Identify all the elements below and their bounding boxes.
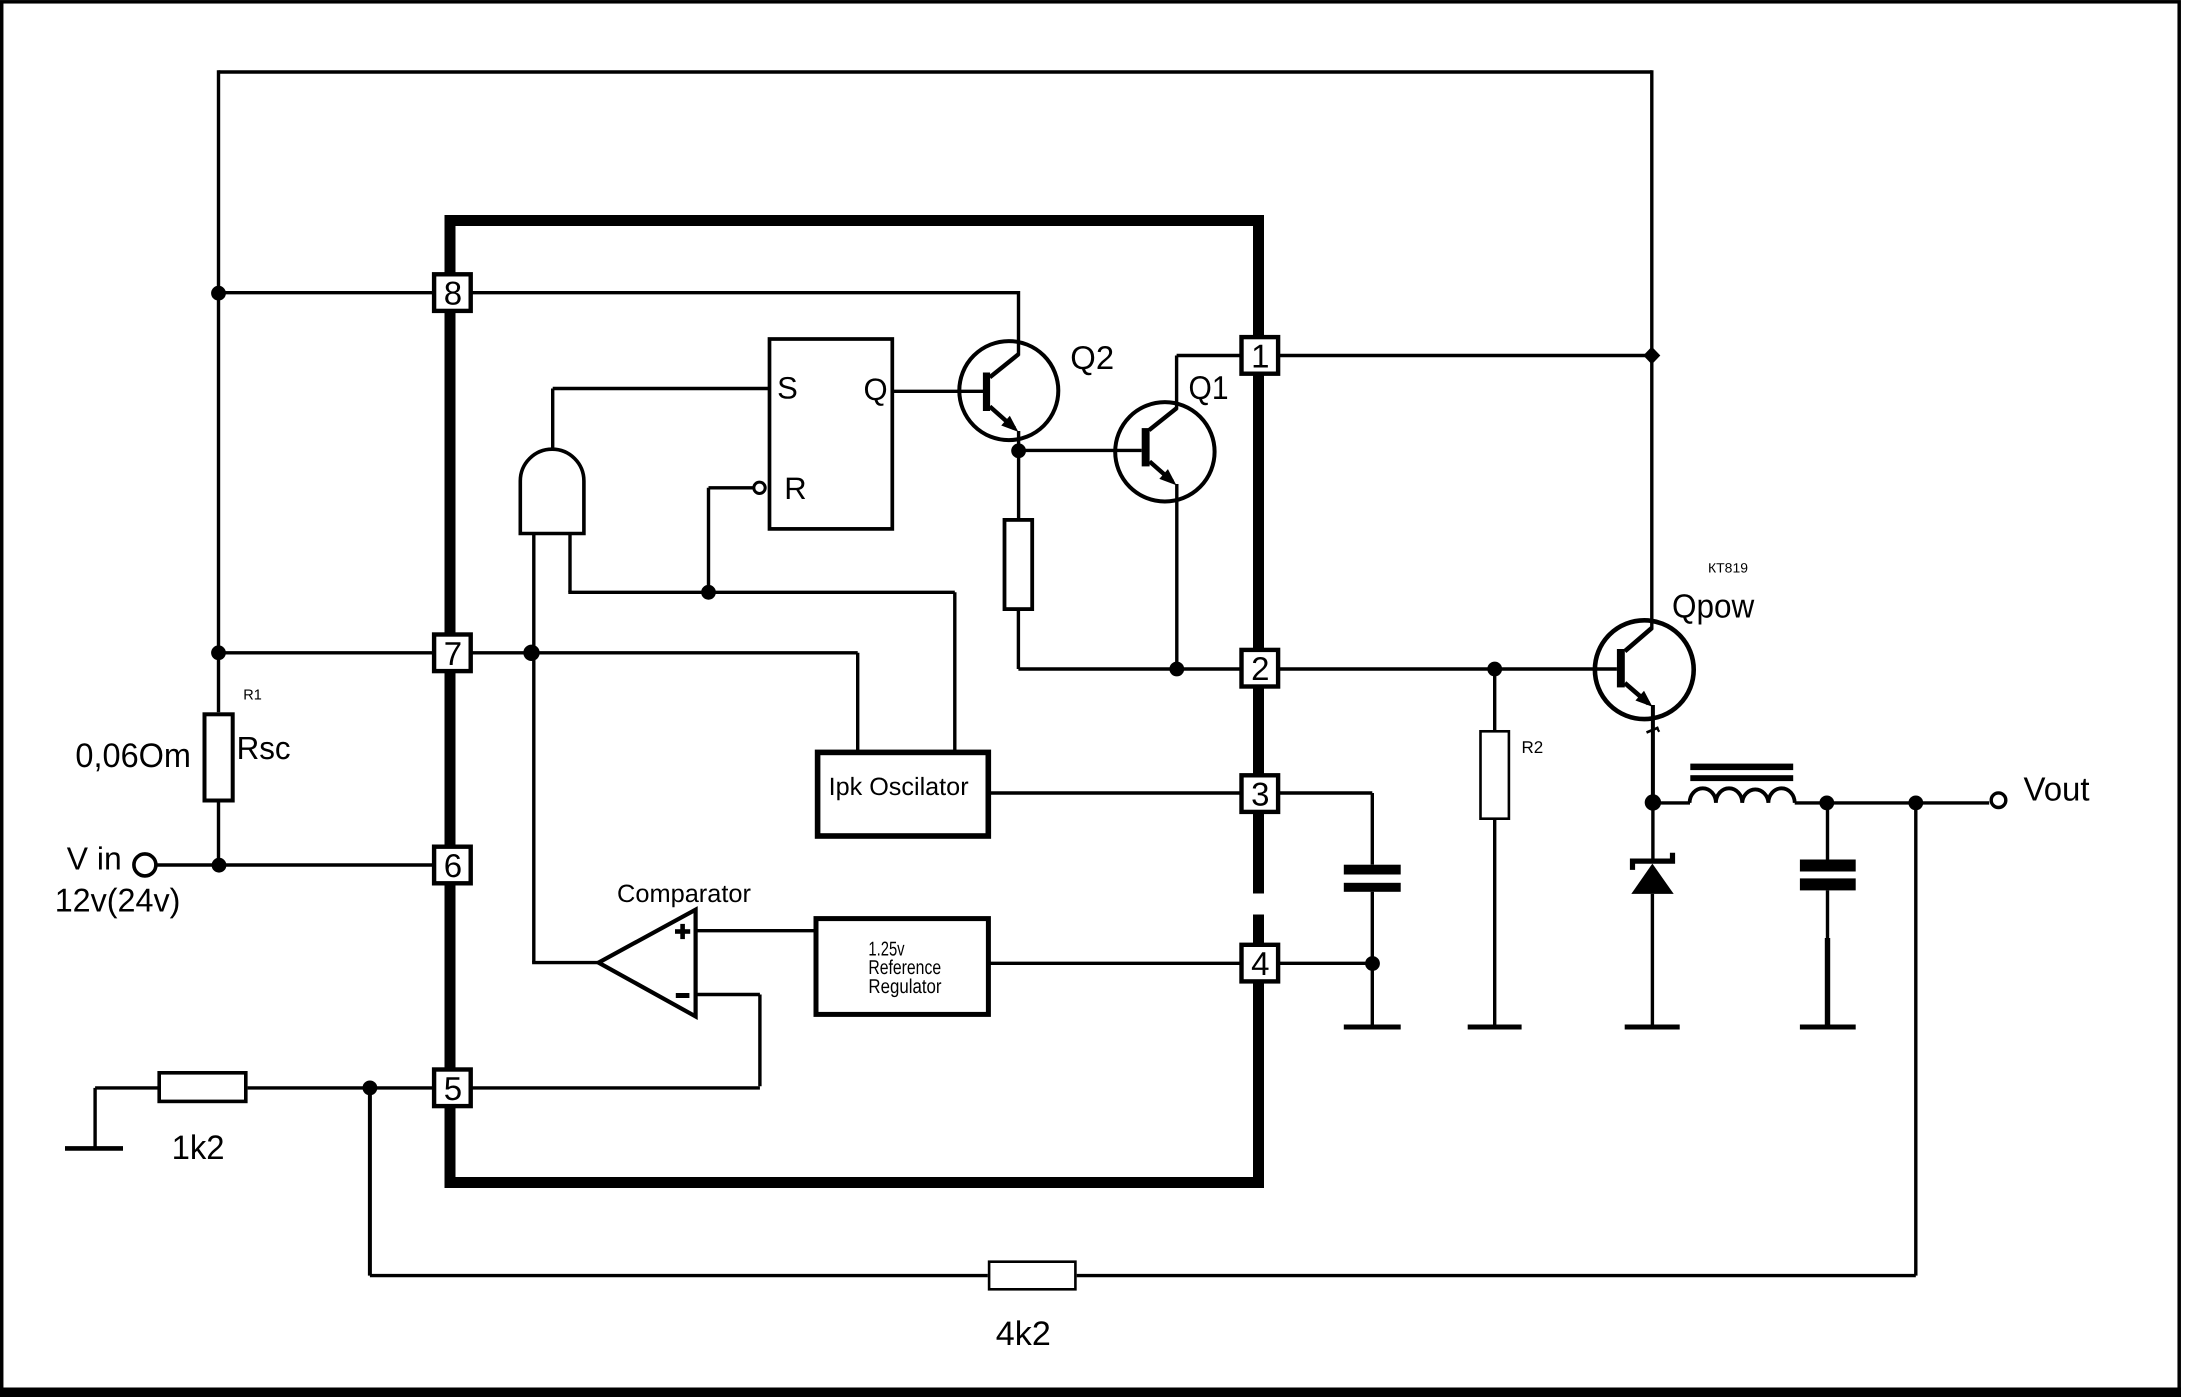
transistor Q1 emitter	[1150, 462, 1173, 482]
wire CT bottom to ground	[1371, 892, 1374, 1025]
wire AND right input drop	[568, 532, 571, 592]
wire inductor to Vout	[1795, 801, 1990, 804]
svg-text:Ipk Oscilator: Ipk Oscilator	[829, 773, 969, 801]
svg-text:R2: R2	[1522, 738, 1544, 757]
pin 2 of IC	[1242, 650, 1279, 687]
pin 3 of IC	[1242, 775, 1279, 812]
svg-text:Vout: Vout	[2024, 772, 2091, 809]
svg-text:Qpow: Qpow	[1672, 588, 1755, 625]
node junction Vin / left rail	[212, 858, 227, 873]
wire S input drop to AND output	[551, 389, 554, 451]
wire reference output to pin 4	[988, 962, 1242, 965]
wire pin 3 to capacitor column	[1277, 791, 1372, 794]
wire AND-gate left input / comparator output column	[532, 532, 535, 963]
wire 1k2 to ground	[95, 1086, 159, 1089]
pin 7 of IC	[434, 635, 471, 672]
svg-text:R: R	[784, 471, 806, 506]
pin 6 of IC	[434, 847, 471, 884]
wire Rsc bottom to Vin node	[217, 803, 220, 867]
svg-text:1: 1	[1251, 337, 1269, 374]
svg-text:7: 7	[444, 635, 462, 672]
wire oscillator right input drop	[953, 592, 956, 754]
diode D1 zener cathode bar	[1633, 853, 1673, 870]
wire pin 8 to left rail	[219, 291, 1019, 294]
wire Cout bottom to ground	[1826, 890, 1829, 940]
svg-text:Regulator: Regulator	[868, 976, 941, 998]
svg-text:R1: R1	[243, 687, 262, 703]
svg-text:4: 4	[1251, 945, 1269, 982]
comparator plus sign	[675, 929, 690, 934]
wire pin 1 to Q1 collector	[1177, 354, 1242, 357]
node junction left rail / pin 7	[211, 645, 226, 660]
node junction Qpow emitter / diode / inductor	[1645, 794, 1661, 810]
wire feedback drop from pin 5 node	[368, 1088, 372, 1276]
svg-text:Q2: Q2	[1070, 339, 1114, 376]
svg-text:Q: Q	[864, 372, 888, 407]
svg-text:5: 5	[444, 1070, 462, 1107]
svg-text:12v(24v): 12v(24v)	[55, 882, 181, 919]
capacitor Cout bottom plate	[1800, 878, 1856, 890]
wire latch S input	[553, 387, 770, 390]
wire right supply drop to Qpow collector	[1650, 70, 1653, 629]
wire feedback riser to Vout node	[1914, 803, 1917, 1276]
transistor Q1 base bar	[1142, 428, 1150, 466]
pin 1 of IC	[1242, 337, 1279, 374]
transistor Q2 circle	[959, 341, 1058, 440]
pin 8 of IC	[434, 274, 471, 311]
pin 4 of IC	[1242, 945, 1279, 982]
wire feedback bottom run	[370, 1274, 988, 1277]
pin 5 of IC	[434, 1070, 471, 1107]
node junction Q2 emitter / Q1 base	[1011, 443, 1026, 458]
wire Q2 resistor to pin 2 row	[1017, 611, 1020, 669]
node junction AND row / R input	[701, 585, 716, 600]
wire 4k2 to Vout column	[1077, 1274, 1916, 1277]
latch U2 S-R flip-flop box	[770, 339, 893, 529]
wire R input riser	[707, 488, 710, 593]
wire pin 7 row	[219, 651, 858, 654]
svg-text:8: 8	[444, 275, 462, 312]
wire left supply rail	[217, 70, 220, 712]
svg-text:Rsc: Rsc	[237, 730, 291, 766]
stray ink mark below Qpow	[1647, 728, 1659, 733]
svg-text:2: 2	[1251, 650, 1269, 687]
node junction pin7 / comparator column	[523, 645, 539, 661]
capacitor CT bottom plate	[1344, 883, 1401, 892]
wire comparator + input to reference box	[696, 929, 816, 932]
wire latch Q output to Q2 base	[892, 390, 983, 393]
wire Qpow emitter node to inductor	[1653, 801, 1690, 804]
transistor Q2 emitter	[990, 407, 1015, 429]
wire Q2 emitter to Q1 base	[1019, 449, 1142, 452]
transistor Q2 base bar	[983, 373, 990, 412]
node junction R2 / pin 2 row	[1487, 662, 1502, 677]
wire R2 top	[1493, 669, 1496, 730]
wire pin 2 row to Qpow base	[1276, 667, 1617, 670]
svg-text:V in: V in	[67, 841, 122, 877]
inductor L1 winding	[1690, 788, 1795, 803]
wire comparator output stub	[532, 961, 598, 964]
transistor Qpow base bar	[1617, 649, 1625, 687]
svg-text:КТ819: КТ819	[1708, 561, 1748, 576]
node junction Q1 emitter / pin 2 row	[1169, 662, 1184, 677]
resistor R-emitter (Q2)	[1005, 520, 1033, 609]
resistor R2	[1481, 731, 1509, 818]
node junction left rail / pin 8	[211, 286, 226, 301]
AND gate U3	[520, 449, 584, 533]
resistor Rsc R1	[205, 714, 233, 800]
svg-text:S: S	[777, 371, 798, 406]
wire Cout top	[1826, 803, 1829, 860]
wire comparator - input	[696, 993, 760, 996]
node junction CT / pin 4 row	[1365, 956, 1380, 971]
resistor 4k2	[989, 1262, 1075, 1290]
transistor Qpow collector	[1625, 628, 1652, 651]
1.25v Reference Regulator box	[816, 919, 988, 1015]
comparator minus sign	[676, 993, 690, 998]
svg-text:0,06Om: 0,06Om	[75, 737, 191, 775]
node junction pin 5 / feedback	[363, 1081, 378, 1096]
transistor Qpow emitter	[1625, 683, 1649, 704]
transistor Q1 circle	[1115, 402, 1214, 501]
inductor core bar 1	[1690, 764, 1793, 771]
wire diode cathode	[1651, 803, 1654, 859]
wire pin7 drop to oscillator left input	[856, 653, 859, 754]
comparator op-amp triangle	[599, 910, 696, 1017]
svg-text:Q1: Q1	[1189, 369, 1229, 406]
wire Vin to pin 6	[157, 863, 434, 866]
wire R2 bottom to ground	[1493, 820, 1496, 1025]
node junction right rail / pin 1	[1643, 347, 1660, 365]
inductor core bar 2	[1690, 775, 1793, 781]
ground Cout	[1800, 1025, 1856, 1030]
wire pin 5 row	[248, 1086, 760, 1089]
latch R inversion bubble	[754, 482, 765, 493]
ground CT	[1344, 1025, 1401, 1030]
diode D1 triangle	[1631, 864, 1673, 894]
wire diode anode to ground	[1651, 894, 1654, 1025]
svg-text:Comparator: Comparator	[617, 880, 751, 908]
wire pin 4 to CT column	[1277, 962, 1372, 965]
svg-text:4k2: 4k2	[996, 1315, 1051, 1353]
wire top supply rail	[219, 70, 1652, 73]
svg-text:3: 3	[1251, 776, 1269, 813]
wire R input to latch bubble	[709, 486, 753, 489]
svg-text:6: 6	[444, 847, 462, 884]
transistor Q1 collector	[1175, 356, 1178, 410]
node junction inductor / Cout	[1819, 796, 1834, 811]
capacitor Cout top plate	[1800, 860, 1856, 872]
terminal V in circle	[134, 854, 156, 876]
node junction Vout / feedback	[1908, 796, 1923, 811]
svg-text:1k2: 1k2	[172, 1129, 225, 1167]
ground R2	[1468, 1025, 1522, 1030]
terminal Vout circle	[1991, 793, 2006, 808]
IC U1 MC34063 body outline	[450, 221, 1259, 1183]
transistor Qpow circle	[1595, 620, 1694, 719]
wire AND row to oscillator right input	[568, 591, 955, 594]
ground diode	[1625, 1025, 1680, 1030]
wire pin 1 to right rail	[1277, 354, 1652, 357]
wire oscillator output to pin 3	[988, 791, 1242, 794]
ground 1k2	[65, 1146, 123, 1151]
resistor 1k2	[159, 1073, 246, 1102]
capacitor CT top plate	[1344, 865, 1401, 875]
Ipk Oscillator box	[818, 752, 989, 836]
transistor Q2 collector	[1017, 291, 1020, 356]
